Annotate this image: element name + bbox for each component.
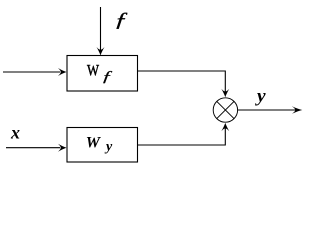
svg-text:y: y (255, 85, 267, 105)
summing junction (multiplier) (213, 98, 237, 122)
svg-text:ƒ: ƒ (114, 9, 129, 31)
svg-text:x: x (10, 122, 20, 142)
wire: x input arrow into Wy left (6, 147, 60, 149)
wire: input arrow into Wf left (3, 71, 60, 73)
wire: Wy output to summing junction (138, 128, 226, 145)
wire: Wf output to summing junction (138, 71, 226, 92)
wire: f input vertical arrow into Wf top (100, 7, 102, 51)
svg-text:W: W (86, 135, 102, 152)
block Wf (67, 56, 138, 92)
svg-text:W: W (87, 63, 100, 80)
wire: output arrow y (238, 109, 296, 111)
svg-text:y: y (104, 140, 113, 155)
block Wy (67, 128, 138, 163)
